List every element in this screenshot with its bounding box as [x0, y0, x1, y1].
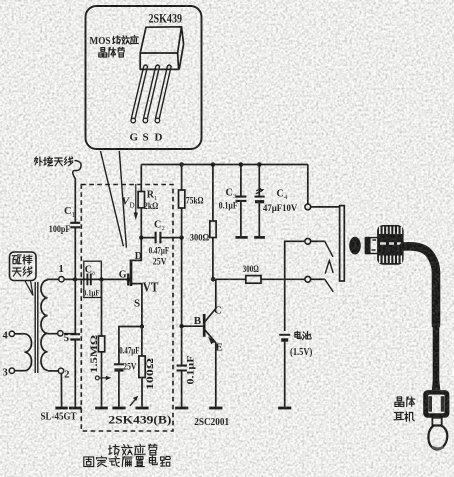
ferrite rod core: [35, 282, 38, 373]
capacitor 0.1uF (to ground): [181, 326, 183, 365]
jack terminal 2: [305, 238, 311, 244]
wire terminal4: [14, 333, 24, 335]
wire antenna to C1: [74, 178, 76, 222]
node rail/75k: [179, 162, 184, 167]
label 外接天线: [34, 157, 36, 162]
earpiece neck: [432, 418, 441, 426]
earphone cable: [404, 246, 437, 325]
capacitor C3 0.1uF: [240, 165, 242, 197]
caption 场效应管: [109, 445, 111, 454]
wire to bypass cap: [119, 327, 142, 364]
wire terminal1 to gate line: [48, 278, 59, 281]
node source junction: [140, 324, 144, 328]
package legs G S D: [131, 65, 147, 119]
wire terminal3: [14, 370, 24, 372]
VD annotation arrow: [135, 184, 137, 214]
wire terminal2 down to ground: [48, 370, 59, 372]
resistor 300Ω (collector): [212, 165, 214, 222]
resistor 100Ω (source): [141, 327, 143, 357]
node rail/300: [211, 162, 216, 167]
ground bar (gate resistor): [95, 407, 108, 410]
ground bar (bypass cap): [112, 407, 125, 410]
FET VT 2SK439 symbol: [130, 260, 133, 287]
adjust arrow: [130, 399, 136, 406]
jack terminal 3: [305, 276, 311, 282]
polarity mark C4: [256, 189, 263, 194]
speech bubble 磁棒天线: [10, 252, 37, 281]
drain lead: [131, 238, 141, 261]
resistor 1.5MΩ (gate leak): [101, 279, 103, 336]
crystal earpiece body: [423, 390, 449, 418]
node collector junction: [211, 277, 216, 282]
jack spring contacts: [325, 241, 333, 256]
transistor 2SC2001: [203, 314, 206, 337]
terminal 3: [9, 368, 14, 373]
label 电池: [295, 332, 300, 337]
electrolytic 0.47uF 25V (source bypass): [114, 363, 124, 365]
ground bar (source resistor): [136, 407, 149, 410]
main winding (terminals 1,5,2): [41, 280, 48, 370]
node gate-resistor junction: [99, 277, 103, 281]
ground bar (terminal 2): [55, 407, 67, 410]
dashed box (FET bias circuit): [81, 185, 173, 432]
node rail/C4: [257, 162, 262, 167]
capacitor C4 47uF10V electrolytic: [258, 165, 260, 197]
caption 固定式偏置电路: [84, 457, 94, 467]
capacitor C1 100pF: [70, 223, 80, 228]
transistor package body 2SK439: [140, 27, 183, 70]
antenna hook/curl: [73, 161, 81, 179]
resistor 300Ω (output series): [216, 278, 246, 280]
callout box (MOS transistor package): [86, 6, 202, 149]
cap on tap-5 line: [74, 279, 76, 333]
ground bar (0.1uF): [175, 407, 188, 410]
antenna coupling winding (terminals 4,3): [25, 334, 32, 371]
jack terminal 1 (tip): [305, 204, 311, 210]
terminal 4: [9, 331, 14, 336]
wire C1 down to gate line: [74, 227, 76, 279]
node base junction: [179, 324, 183, 328]
earphone plug (photo style): [349, 237, 361, 255]
wire rail right corner down to jack tip terminal: [307, 165, 309, 205]
terminal 1: [59, 277, 64, 282]
source lead: [131, 284, 142, 327]
polarity circle-arrow: [95, 376, 99, 380]
wire to base: [182, 325, 203, 327]
resistor 75kΩ: [181, 165, 183, 238]
battery 1.5V: [279, 334, 290, 336]
resistor R1 2kΩ: [140, 165, 142, 238]
wire gate line: [64, 278, 127, 280]
ground bar (battery): [278, 407, 291, 410]
capacitor C2 0.47uF 25V: [141, 237, 181, 239]
ground bar (emitter): [209, 407, 222, 410]
earpiece drop: [428, 426, 447, 450]
ground bar (tap line): [69, 407, 82, 410]
jack frame bar: [340, 206, 345, 281]
node C2/75k: [179, 235, 183, 239]
node rail/C3: [239, 162, 244, 167]
top supply rail: [141, 164, 307, 166]
terminal 5: [58, 331, 63, 336]
callout pointer lines to VT: [101, 151, 124, 246]
label 晶体 耳机: [397, 397, 401, 401]
node: antenna joins gate wire: [73, 277, 77, 281]
capacitor Ca 0.1uF (boxed): [84, 261, 102, 297]
node drain/R1/C2: [139, 235, 143, 239]
wire terminal5 tap: [48, 333, 76, 335]
